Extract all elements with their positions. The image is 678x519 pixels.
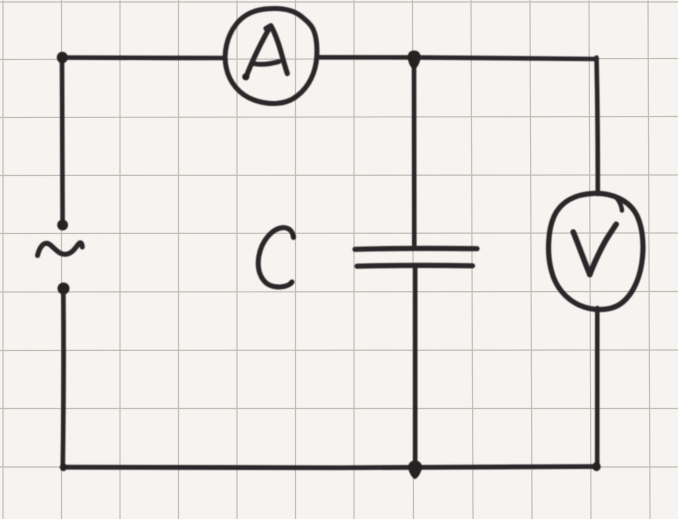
- node bottom-right corner: [592, 462, 600, 471]
- wire ammeter to node: [317, 55, 414, 60]
- wire node to top-right corner: [414, 57, 597, 59]
- letter V in voltmeter: [573, 224, 616, 274]
- node bottom-left corner: [60, 463, 67, 471]
- ac source: [38, 220, 83, 295]
- wire top-left to ammeter: [60, 55, 225, 60]
- node at top-left corner: [57, 52, 68, 64]
- capacitor C: [355, 248, 477, 266]
- node bottom junction: [408, 461, 422, 480]
- voltmeter: [549, 193, 643, 309]
- wire bottom-left corner up to source: [60, 293, 65, 467]
- label C: [258, 228, 296, 287]
- wire node down to capacitor top plate: [412, 57, 417, 245]
- node top junction: [408, 51, 421, 70]
- wire source up to top-left corner: [60, 58, 65, 225]
- wire capacitor bottom plate down to bottom node: [413, 267, 418, 467]
- letter A in ammeter: [242, 26, 287, 81]
- wire top-right corner down to voltmeter: [597, 58, 598, 195]
- wire voltmeter to bottom-right corner: [595, 308, 600, 467]
- ammeter: [225, 8, 317, 103]
- wire bottom: [63, 467, 597, 468]
